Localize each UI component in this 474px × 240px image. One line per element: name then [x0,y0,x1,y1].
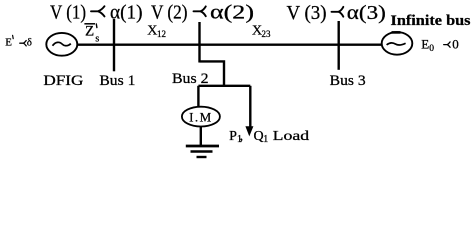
impedance label Zs' with overbar [84,23,99,44]
wire down to induction machine [197,86,199,107]
svg-text:δ: δ [27,37,32,49]
induction machine I.M [182,107,220,127]
svg-text:23: 23 [262,29,272,39]
svg-text:P: P [229,129,237,144]
wire branch horizontal [198,85,250,87]
infinite bus source symbol [382,32,413,55]
svg-text:V (1): V (1) [50,2,86,24]
svg-text:Infinite bus: Infinite bus [391,13,471,29]
svg-text:,: , [240,129,244,144]
wire DFIG to Bus 1 [77,44,114,46]
svg-text:Bus 2: Bus 2 [172,71,209,87]
load arrow head [245,126,253,136]
svg-text:Q: Q [254,129,264,144]
svg-text:s: s [95,33,99,44]
svg-text:α(3): α(3) [347,2,386,24]
generator DFIG symbol [46,33,77,56]
svg-text:0: 0 [452,36,459,51]
label X12 [147,24,166,39]
label V(2) angle alpha(2) [151,2,254,24]
svg-text:Bus 1: Bus 1 [99,73,135,89]
svg-text:I.M: I.M [189,109,213,124]
svg-text:DFIG: DFIG [43,73,83,89]
label V(3) angle alpha(3) [287,2,386,24]
wire X23 Bus2 to Bus3 [200,44,339,46]
svg-text:12: 12 [157,29,166,39]
svg-text:X: X [147,24,157,39]
wire Bus3 to infinite bus [339,44,382,46]
label P1 Q1 Load [229,129,309,145]
svg-text:V (3): V (3) [287,2,327,24]
svg-text:1: 1 [263,134,268,145]
label V(1) angle alpha(1) [50,2,143,24]
bus 2 bar [198,22,200,63]
wire X12 Bus1 to Bus2 [114,44,200,46]
svg-text:0: 0 [429,44,434,54]
wire IM to ground [200,126,202,145]
label X23 [252,24,271,39]
svg-text:Bus 3: Bus 3 [330,73,366,89]
svg-text:α(2): α(2) [210,2,254,24]
svg-text:V (2): V (2) [151,2,188,24]
svg-text:Load: Load [273,129,310,144]
bus 1 bar [113,19,115,71]
label E' angle delta [5,35,32,48]
label E0 angle 0 [421,36,458,54]
bus 3 bar [338,21,340,70]
wire jog from bus 2 bottom [200,61,225,85]
ground [186,146,219,157]
svg-text:E: E [421,36,429,51]
wire down to load [249,86,251,128]
svg-text:E: E [5,37,12,49]
svg-text:Z: Z [85,23,94,39]
